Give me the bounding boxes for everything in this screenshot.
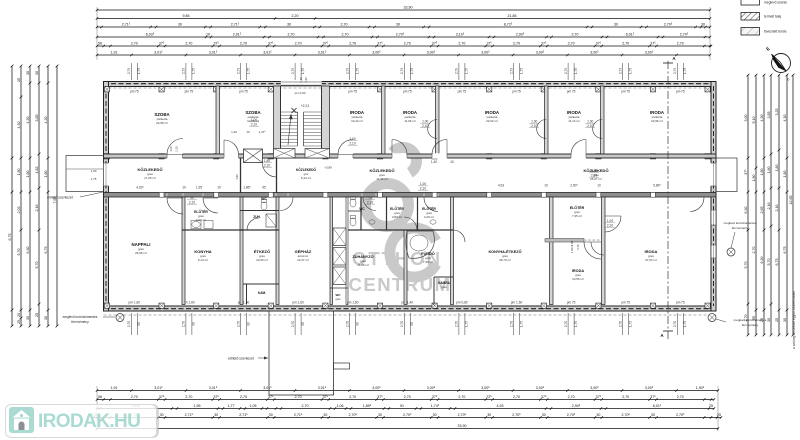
svg-text:pm 0,00: pm 0,00 — [295, 91, 306, 95]
svg-text:6,75: 6,75 — [44, 247, 48, 254]
svg-text:pm 75: pm 75 — [567, 301, 576, 305]
svg-text:5,10: 5,10 — [752, 117, 756, 124]
svg-text:37⁵: 37⁵ — [213, 395, 219, 399]
svg-text:előtető szerkezet: előtető szerkezet — [228, 357, 254, 361]
svg-text:3,00⁵: 3,00⁵ — [427, 51, 436, 55]
svg-text:fém kémény: fém kémény — [742, 323, 759, 327]
svg-text:3,00⁵: 3,00⁵ — [536, 386, 545, 390]
svg-text:pm 75: pm 75 — [348, 90, 357, 94]
wall IRODA4/IRODA5 — [601, 86, 605, 155]
wall KAMRA — [434, 276, 453, 278]
dumbwaiter box — [244, 149, 263, 163]
svg-text:3,01⁵: 3,01⁵ — [154, 386, 163, 390]
svg-text:37⁵: 37⁵ — [432, 42, 438, 46]
wall IRODA2/IRODA3 — [436, 86, 440, 155]
svg-text:2,70: 2,70 — [127, 321, 131, 327]
svg-text:17,25 m²: 17,25 m² — [144, 176, 156, 180]
svg-text:pm 1,60: pm 1,60 — [292, 301, 304, 305]
svg-text:1,91: 1,91 — [111, 51, 118, 55]
svg-text:2,70: 2,70 — [295, 42, 302, 46]
svg-text:37⁵: 37⁵ — [650, 42, 656, 46]
corridor partition walls — [240, 159, 242, 193]
svg-text:1,75: 1,75 — [465, 321, 469, 327]
svg-text:6,30: 6,30 — [26, 247, 30, 254]
svg-text:10: 10 — [206, 33, 210, 37]
svg-text:1,80: 1,80 — [752, 175, 756, 182]
svg-text:2,70: 2,70 — [288, 33, 295, 37]
shaft right wall — [346, 197, 348, 305]
svg-text:1,75: 1,75 — [629, 68, 633, 74]
svg-text:90: 90 — [190, 196, 194, 200]
svg-text:2,70: 2,70 — [295, 395, 302, 399]
svg-text:2,70: 2,70 — [349, 395, 356, 399]
staircase top opening — [281, 81, 322, 87]
svg-text:2,70: 2,70 — [619, 321, 623, 327]
svg-text:2,71⁵: 2,71⁵ — [231, 23, 240, 27]
svg-text:3,01⁵: 3,01⁵ — [318, 51, 327, 55]
svg-text:6,01⁵: 6,01⁵ — [626, 33, 635, 37]
svg-text:2,79: 2,79 — [509, 68, 513, 74]
svg-text:1,75: 1,75 — [192, 68, 196, 74]
stair X boxes at landing — [274, 149, 296, 159]
svg-text:30: 30 — [269, 413, 273, 417]
svg-text:4,03⁵: 4,03⁵ — [136, 186, 144, 190]
svg-text:pm 75: pm 75 — [676, 301, 685, 305]
wall FURDO left — [404, 230, 407, 305]
svg-text:2,70: 2,70 — [677, 395, 684, 399]
chimney right bottom — [708, 314, 716, 322]
svg-text:2,70: 2,70 — [458, 42, 465, 46]
svg-text:6,44 m²: 6,44 m² — [301, 176, 311, 180]
svg-text:23,95 m²: 23,95 m² — [156, 121, 168, 125]
svg-text:2,71⁵: 2,71⁵ — [185, 413, 194, 417]
svg-text:1,75: 1,75 — [574, 68, 578, 74]
dim line 2 — [97, 18, 710, 20]
svg-text:10: 10 — [450, 160, 454, 164]
svg-text:3,00⁵: 3,00⁵ — [481, 386, 490, 390]
svg-text:meglévő korróziómentes: meglévő korróziómentes — [724, 221, 757, 225]
svg-text:37⁵: 37⁵ — [323, 42, 329, 46]
entrance gap right wall — [711, 163, 717, 186]
svg-text:2,70: 2,70 — [302, 404, 309, 408]
svg-text:fém kémény: fém kémény — [71, 320, 89, 324]
svg-text:3,00⁵: 3,00⁵ — [536, 51, 545, 55]
svg-text:1,00: 1,00 — [531, 120, 537, 124]
svg-text:2,10: 2,10 — [587, 124, 593, 128]
svg-text:30: 30 — [35, 71, 39, 75]
window axis marks top — [130, 63, 132, 80]
svg-text:2,70⁵: 2,70⁵ — [458, 413, 467, 417]
wall IRODA3/IRODA4 — [545, 86, 549, 155]
svg-text:2,70: 2,70 — [131, 42, 138, 46]
svg-text:11,33 m²: 11,33 m² — [376, 177, 388, 181]
svg-text:37⁵: 37⁵ — [596, 395, 602, 399]
legend box 3 fuvesitett terulet — [741, 28, 760, 36]
svg-text:33,90: 33,90 — [404, 6, 413, 10]
wall IRODA1/IRODA2 — [382, 86, 386, 155]
svg-text:56: 56 — [98, 395, 102, 399]
wall ELOTER/ELOTER — [417, 197, 419, 230]
svg-text:30: 30 — [433, 413, 437, 417]
svg-text:37⁵: 37⁵ — [213, 42, 219, 46]
svg-text:1,75: 1,75 — [410, 68, 414, 74]
wall KONYHA-ETKEZO right — [550, 197, 554, 305]
svg-text:1,80: 1,80 — [26, 171, 30, 178]
chimney right mid — [727, 248, 735, 256]
svg-text:2,10: 2,10 — [264, 163, 270, 167]
svg-text:pm 1,60: pm 1,60 — [511, 301, 523, 305]
svg-text:14,06 m²: 14,06 m² — [357, 263, 369, 267]
svg-text:pm 75: pm 75 — [621, 301, 630, 305]
svg-text:1,95: 1,95 — [194, 404, 201, 408]
svg-text:37⁵: 37⁵ — [486, 42, 492, 46]
sinks — [192, 222, 200, 228]
svg-text:1,06: 1,06 — [337, 404, 344, 408]
exterior wall right — [711, 82, 716, 312]
svg-text:90: 90 — [246, 322, 250, 326]
svg-text:36,74 m²: 36,74 m² — [499, 258, 511, 262]
svg-text:füvesített terüle: füvesített terüle — [764, 30, 787, 34]
svg-text:2,91⁵: 2,91⁵ — [233, 33, 242, 37]
wall WC/ZUH — [240, 210, 279, 212]
svg-text:12,85: 12,85 — [789, 196, 793, 205]
svg-text:2,70: 2,70 — [400, 321, 404, 327]
svg-text:37⁵: 37⁵ — [323, 395, 329, 399]
svg-text:37⁵: 37⁵ — [650, 395, 656, 399]
dim line 5 — [97, 45, 711, 47]
wall columns — [104, 87, 109, 92]
svg-text:2,10: 2,10 — [607, 223, 613, 227]
svg-text:2,65: 2,65 — [760, 207, 764, 214]
svg-text:2,70: 2,70 — [185, 42, 192, 46]
wall WC/ELOTER mid — [360, 197, 362, 230]
svg-text:2,70⁵: 2,70⁵ — [680, 33, 689, 37]
svg-text:56: 56 — [98, 42, 102, 46]
svg-text:2,79: 2,79 — [291, 68, 295, 74]
svg-text:1,60: 1,60 — [91, 169, 97, 173]
svg-text:1,80: 1,80 — [760, 169, 764, 176]
svg-text:6,30: 6,30 — [744, 207, 748, 214]
wall ELOTER/IRODA right — [602, 197, 606, 305]
toilets — [261, 202, 267, 210]
svg-text:2,70: 2,70 — [349, 42, 356, 46]
svg-text:10,55 m²: 10,55 m² — [572, 277, 584, 281]
svg-text:2,70⁵: 2,70⁵ — [567, 413, 576, 417]
svg-text:11,06 m²: 11,06 m² — [404, 119, 416, 123]
svg-text:5,70: 5,70 — [767, 259, 771, 266]
wall FURDO right — [451, 197, 454, 305]
svg-text:6,01¹: 6,01¹ — [653, 404, 662, 408]
dim guide lines — [96, 7, 98, 60]
svg-text:37⁵: 37⁵ — [432, 395, 438, 399]
watermark Otthon Centrum logo — [366, 148, 437, 277]
svg-text:1,75: 1,75 — [629, 321, 633, 327]
svg-text:2,79: 2,79 — [127, 68, 131, 74]
dim bottom 3 — [97, 408, 714, 410]
svg-text:meglévő korróziómentes: meglévő korróziómentes — [734, 318, 767, 322]
svg-text:2,79: 2,79 — [346, 68, 350, 74]
irodak.hu logo plate — [5, 404, 157, 438]
svg-text:2,70: 2,70 — [572, 33, 579, 37]
svg-text:26,05 m²: 26,05 m² — [135, 251, 147, 255]
svg-text:pm 75: pm 75 — [185, 90, 194, 94]
svg-text:3,01⁵: 3,01⁵ — [263, 51, 272, 55]
svg-text:előtető szerkezet: előtető szerkezet — [47, 196, 73, 200]
svg-text:30: 30 — [596, 413, 600, 417]
exterior wall bottom — [104, 306, 717, 311]
legend box 2 termelt talaj — [741, 13, 760, 21]
svg-text:pm 0,80: pm 0,80 — [456, 301, 468, 305]
shaft boxes — [333, 228, 346, 246]
bathtub — [406, 231, 435, 258]
svg-text:2,70⁵: 2,70⁵ — [396, 33, 405, 37]
svg-text:21,85: 21,85 — [508, 14, 517, 18]
svg-text:+3,89: +3,89 — [324, 166, 332, 170]
svg-text:2,10: 2,10 — [367, 200, 373, 204]
svg-text:1,80: 1,80 — [17, 169, 21, 176]
svg-text:2,70: 2,70 — [509, 321, 513, 327]
svg-text:3,01⁵: 3,01⁵ — [209, 51, 218, 55]
svg-text:5,70: 5,70 — [17, 249, 21, 256]
svg-text:2,70: 2,70 — [236, 321, 240, 327]
svg-text:30: 30 — [26, 316, 30, 320]
svg-text:37⁵: 37⁵ — [596, 42, 602, 46]
bottom dimension block — [130, 313, 132, 335]
svg-text:90: 90 — [410, 322, 414, 326]
wall ZUH/ETKEZO — [240, 229, 279, 231]
svg-text:1,00: 1,00 — [607, 219, 613, 223]
svg-text:25: 25 — [35, 313, 39, 317]
svg-text:2,71⁵: 2,71⁵ — [239, 413, 248, 417]
wall GEPHAZ/shaft — [330, 197, 333, 305]
svg-text:1,00: 1,00 — [420, 182, 426, 186]
svg-text:1,00: 1,00 — [587, 120, 593, 124]
svg-text:pm 75: pm 75 — [676, 90, 685, 94]
svg-text:2,79: 2,79 — [236, 68, 240, 74]
svg-text:1,77: 1,77 — [228, 404, 235, 408]
svg-text:1,80: 1,80 — [44, 171, 48, 178]
door arcs lower rooms — [167, 198, 183, 214]
svg-text:2,10: 2,10 — [189, 200, 195, 204]
svg-text:90: 90 — [192, 322, 196, 326]
svg-text:1,80: 1,80 — [775, 165, 779, 172]
svg-text:37⁵: 37⁵ — [486, 395, 492, 399]
svg-text:30: 30 — [287, 23, 291, 27]
svg-text:pm 75: pm 75 — [130, 90, 139, 94]
legend box 1 meglevo szerkezet — [741, 0, 760, 5]
svg-text:1,80: 1,80 — [783, 171, 787, 178]
svg-text:37⁵: 37⁵ — [377, 395, 383, 399]
wall KONYHA/WC block — [240, 197, 243, 305]
svg-text:2,70: 2,70 — [568, 42, 575, 46]
svg-text:2,79: 2,79 — [182, 68, 186, 74]
svg-text:3,25: 3,25 — [775, 109, 779, 116]
svg-text:10: 10 — [544, 184, 548, 188]
svg-text:KAM.: KAM. — [258, 291, 266, 295]
svg-text:1,75: 1,75 — [91, 177, 97, 181]
svg-text:4,30: 4,30 — [44, 117, 48, 124]
svg-text:3,00⁵: 3,00⁵ — [645, 51, 654, 55]
svg-text:2,16: 2,16 — [35, 205, 39, 212]
svg-text:2,03: 2,03 — [17, 207, 21, 214]
irodak.hu wordmark — [38, 411, 140, 433]
svg-text:2,16: 2,16 — [767, 203, 771, 210]
svg-text:1,75: 1,75 — [246, 68, 250, 74]
svg-text:6,30: 6,30 — [760, 257, 764, 264]
svg-text:3,01⁵: 3,01⁵ — [154, 51, 163, 55]
left porch — [66, 156, 104, 192]
svg-text:3,10⁵: 3,10⁵ — [456, 33, 465, 37]
svg-text:pm 75: pm 75 — [621, 90, 630, 94]
svg-text:6,75: 6,75 — [783, 247, 787, 254]
svg-text:25: 25 — [709, 404, 713, 408]
staircase — [281, 86, 322, 154]
svg-text:30: 30 — [178, 23, 182, 27]
svg-text:3,85: 3,85 — [767, 112, 771, 119]
level marker — [292, 108, 297, 113]
wall ELOTER/KONYHA — [182, 229, 243, 231]
svg-text:2,70: 2,70 — [346, 321, 350, 327]
svg-text:6,75: 6,75 — [8, 234, 12, 241]
svg-text:1,40: 1,40 — [431, 160, 437, 164]
dim line 3 — [97, 26, 710, 28]
svg-text:2,20: 2,20 — [292, 14, 299, 18]
stair walk line — [288, 114, 291, 145]
svg-text:1,00: 1,00 — [349, 137, 355, 141]
right wall windows — [712, 210, 716, 225]
svg-text:7,35 m²: 7,35 m² — [572, 214, 582, 218]
wall ELOTER/IRODA (grey partial) — [545, 239, 584, 243]
wall ETKEZO/GEPHAZ — [276, 197, 279, 305]
svg-text:30: 30 — [542, 413, 546, 417]
exterior wall left — [104, 82, 109, 312]
svg-text:2,70: 2,70 — [404, 395, 411, 399]
svg-text:2,70⁵: 2,70⁵ — [664, 23, 673, 27]
svg-text:30: 30 — [651, 413, 655, 417]
svg-text:2,70: 2,70 — [458, 395, 465, 399]
svg-text:37⁵: 37⁵ — [377, 42, 383, 46]
svg-text:2,10: 2,10 — [420, 186, 426, 190]
svg-text:2,71⁵: 2,71⁵ — [294, 413, 303, 417]
svg-text:a szöveg tervekkel együtt keze: a szöveg tervekkel együtt kezelendőek — [792, 291, 796, 350]
svg-text:37⁵: 37⁵ — [541, 395, 547, 399]
svg-text:2,70: 2,70 — [404, 42, 411, 46]
svg-text:75: 75 — [368, 196, 372, 200]
svg-text:pm 75: pm 75 — [458, 90, 467, 94]
svg-text:2,70: 2,70 — [341, 23, 348, 27]
exterior wall top — [104, 82, 717, 87]
svg-text:2,70: 2,70 — [182, 321, 186, 327]
svg-text:2,79: 2,79 — [619, 68, 623, 74]
svg-text:2,10: 2,10 — [531, 124, 537, 128]
svg-text:37⁵: 37⁵ — [159, 395, 165, 399]
svg-text:2,70⁵: 2,70⁵ — [512, 413, 521, 417]
dim bottom 2 — [97, 399, 714, 401]
svg-text:30: 30 — [26, 71, 30, 75]
svg-text:2,70⁵: 2,70⁵ — [676, 413, 685, 417]
svg-text:30: 30 — [614, 23, 618, 27]
dim bottom 4 — [94, 417, 722, 419]
svg-text:2,79: 2,79 — [455, 68, 459, 74]
svg-text:2,70: 2,70 — [185, 395, 192, 399]
svg-text:19,47 m²: 19,47 m² — [297, 258, 309, 262]
svg-text:pm 1,60: pm 1,60 — [347, 301, 359, 305]
svg-text:3,00: 3,00 — [744, 115, 748, 122]
svg-text:9,13 m²: 9,13 m² — [198, 258, 208, 262]
svg-text:3,85: 3,85 — [35, 115, 39, 122]
svg-text:1,90⁵: 1,90⁵ — [696, 386, 705, 390]
svg-text:1,75: 1,75 — [137, 68, 141, 74]
svg-text:pm 75: pm 75 — [567, 90, 576, 94]
svg-text:2,70: 2,70 — [752, 247, 756, 254]
svg-text:1,75: 1,75 — [574, 321, 578, 327]
svg-text:2,90⁵: 2,90⁵ — [570, 184, 578, 188]
svg-text:2,70: 2,70 — [576, 244, 580, 250]
svg-text:1,75: 1,75 — [683, 321, 687, 327]
svg-text:10: 10 — [597, 184, 601, 188]
svg-text:9,85: 9,85 — [183, 14, 190, 18]
wall ELOTER mid2 — [386, 197, 388, 230]
dim bottom total 33,90 — [97, 428, 718, 430]
right porch — [716, 158, 737, 192]
right dimension block — [747, 75, 749, 335]
wall under top rooms H1 — [104, 154, 717, 158]
wall ETKEZO/KAM — [243, 283, 279, 285]
dim bottom 1 — [97, 390, 718, 392]
wall NAPPALI/ELOTER — [182, 197, 185, 305]
svg-text:2,70: 2,70 — [240, 395, 247, 399]
svg-text:2,90⁵: 2,90⁵ — [572, 404, 581, 408]
svg-text:33,90: 33,90 — [458, 424, 467, 428]
svg-text:2,70: 2,70 — [240, 42, 247, 46]
wall WC row middle — [348, 210, 362, 212]
svg-text:10: 10 — [246, 130, 250, 134]
svg-text:30: 30 — [701, 23, 705, 27]
svg-text:7,35 m²: 7,35 m² — [423, 260, 433, 264]
svg-text:25: 25 — [717, 413, 721, 417]
door arcs top rooms — [167, 139, 183, 155]
svg-text:1,83: 1,83 — [35, 167, 39, 174]
svg-text:2,90⁵: 2,90⁵ — [516, 33, 525, 37]
svg-text:2,10: 2,10 — [251, 122, 257, 126]
svg-text:4,93: 4,93 — [497, 404, 504, 408]
svg-text:25: 25 — [775, 318, 779, 322]
svg-text:WC: WC — [359, 207, 365, 211]
wall stair/IRODA — [322, 86, 330, 155]
svg-text:2,70⁵: 2,70⁵ — [621, 413, 630, 417]
svg-text:30: 30 — [487, 413, 491, 417]
svg-text:2,10: 2,10 — [175, 146, 179, 152]
svg-text:91: 91 — [400, 404, 404, 408]
svg-text:pm 75: pm 75 — [403, 90, 412, 94]
svg-text:meglévő korróziómentes: meglévő korróziómentes — [63, 315, 98, 319]
bottom canopy — [269, 311, 334, 395]
svg-text:3,00⁵: 3,00⁵ — [427, 386, 436, 390]
svg-text:90: 90 — [356, 322, 360, 326]
svg-text:2,70: 2,70 — [673, 321, 677, 327]
svg-text:pm 75: pm 75 — [512, 90, 521, 94]
svg-text:1,75: 1,75 — [356, 68, 360, 74]
svg-text:10: 10 — [217, 186, 221, 190]
svg-text:6,03⁵: 6,03⁵ — [146, 33, 155, 37]
svg-text:3,00⁵: 3,00⁵ — [590, 386, 599, 390]
svg-text:2,20: 2,20 — [299, 77, 303, 83]
svg-text:1,75: 1,75 — [683, 68, 687, 74]
svg-text:37⁵: 37⁵ — [541, 42, 547, 46]
svg-text:fém kémény: fém kémény — [732, 226, 749, 230]
left dimension block — [11, 66, 13, 326]
svg-text:2,10: 2,10 — [349, 141, 355, 145]
